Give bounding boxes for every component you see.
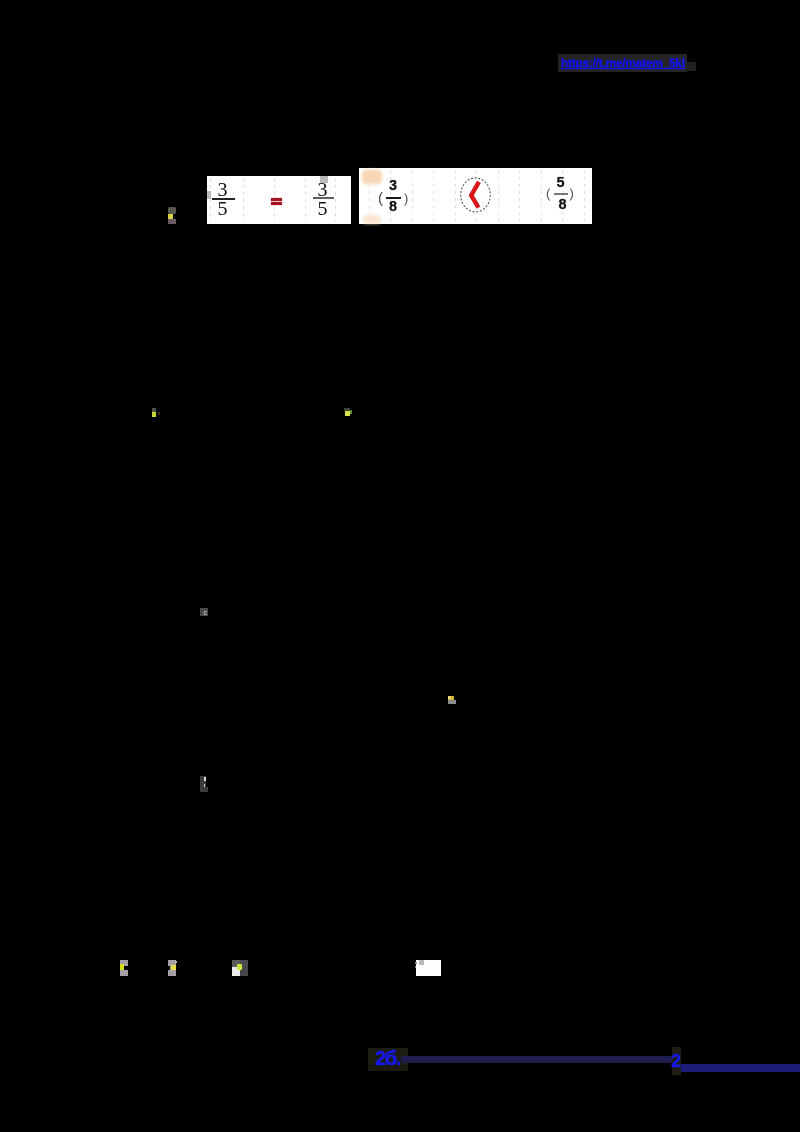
gray smudge left edge (207, 191, 211, 199)
orange smudge bottom-left (363, 215, 381, 224)
link tail mark (686, 62, 696, 71)
icon D (200,608) gray square with c (200, 608, 208, 616)
right white box (359, 168, 592, 224)
link text (561, 56, 691, 71)
fraction 3/5 (left) (204, 183, 242, 197)
left box dashed gridlines (210, 178, 211, 222)
icon C (346,408) (344, 408, 350, 411)
bottom icon H (168,960) (168, 960, 176, 976)
navy bar 1 (401, 1056, 672, 1063)
link highlight band (558, 54, 687, 72)
circle with red < (458, 176, 494, 214)
icon B (152,408) (152, 408, 156, 412)
blue "2" (672, 1047, 681, 1075)
white rect J (416,960) (416, 960, 441, 977)
icon E (448,696) (448, 696, 454, 701)
icon F (200,776) dark E (200, 776, 206, 787)
navy bar 2 (681, 1064, 800, 1072)
gray square above right fraction (320, 176, 328, 183)
bottom icon G (120,960) (120, 960, 128, 976)
( 5/8 ) (546, 189, 550, 199)
icon A (left of left box) (168, 207, 176, 214)
left white box (207, 176, 351, 224)
( 3/8 ) (378, 193, 383, 204)
red equals (271, 198, 282, 201)
fraction 3/5 (right) (304, 183, 342, 197)
bottom-left blue text (368, 1048, 408, 1064)
bottom icon I (232,960) (232, 960, 240, 967)
orange smudge top-left (362, 170, 382, 184)
right box dashed gridlines (369, 170, 370, 222)
